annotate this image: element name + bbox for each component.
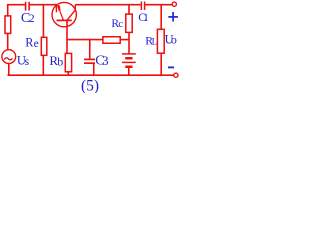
source Us xyxy=(2,50,16,64)
svg-text:s: s xyxy=(25,54,30,68)
wire down to RL xyxy=(160,5,162,30)
resistor Rc xyxy=(126,14,132,32)
svg-text:b: b xyxy=(57,55,63,69)
wire C1 to terminal xyxy=(145,4,172,6)
resistor (source internal) left xyxy=(5,16,11,34)
wire Rb to rail xyxy=(67,72,69,75)
capacitor C1 xyxy=(141,2,144,11)
wire RL to rail xyxy=(160,53,162,75)
wire top-left corner xyxy=(8,5,25,16)
C3 lower lead xyxy=(93,64,95,75)
svg-text:(5): (5) xyxy=(81,77,99,93)
collector line xyxy=(67,10,75,20)
wire collector to C1 xyxy=(75,4,140,6)
battery lead to rail xyxy=(128,67,130,75)
bias resistor horizontal xyxy=(103,37,120,44)
emitter lead xyxy=(55,5,57,13)
output terminal bottom xyxy=(174,73,178,77)
output terminal top xyxy=(172,2,176,6)
resistor RL xyxy=(157,29,164,53)
wire to Us xyxy=(7,33,9,50)
wire Rc to battery xyxy=(128,32,130,53)
base bar xyxy=(57,19,72,21)
svg-text:3: 3 xyxy=(102,54,108,68)
minus sign output xyxy=(168,66,174,68)
wire Us to rail xyxy=(8,63,10,75)
collector lead xyxy=(74,5,76,11)
branch wire to bias resistor xyxy=(67,39,103,41)
svg-text:1: 1 xyxy=(143,12,149,24)
capacitor C3 plates xyxy=(84,59,95,63)
ground rail xyxy=(8,74,174,76)
capacitor C2 xyxy=(26,2,30,11)
sine mark xyxy=(4,58,12,60)
base lead down xyxy=(66,20,68,53)
wire node A down to Re xyxy=(42,5,44,38)
stub to Rc xyxy=(128,5,130,14)
battery V xyxy=(122,54,136,67)
wire C2 to emitter xyxy=(30,4,57,6)
resistor Rb xyxy=(65,53,71,71)
transistor Q circle xyxy=(52,2,76,26)
svg-text:2: 2 xyxy=(29,13,35,25)
plus sign output xyxy=(168,12,178,22)
wire bias resistor to Rc column xyxy=(120,39,129,41)
svg-text:o: o xyxy=(171,32,177,46)
svg-text:e: e xyxy=(34,38,39,50)
svg-text:L: L xyxy=(152,38,158,48)
emitter arrow xyxy=(57,5,61,11)
resistor Re xyxy=(41,37,47,55)
svg-text:c: c xyxy=(118,18,123,30)
wire Re to rail xyxy=(42,55,44,75)
C3 tap lead xyxy=(89,40,91,59)
